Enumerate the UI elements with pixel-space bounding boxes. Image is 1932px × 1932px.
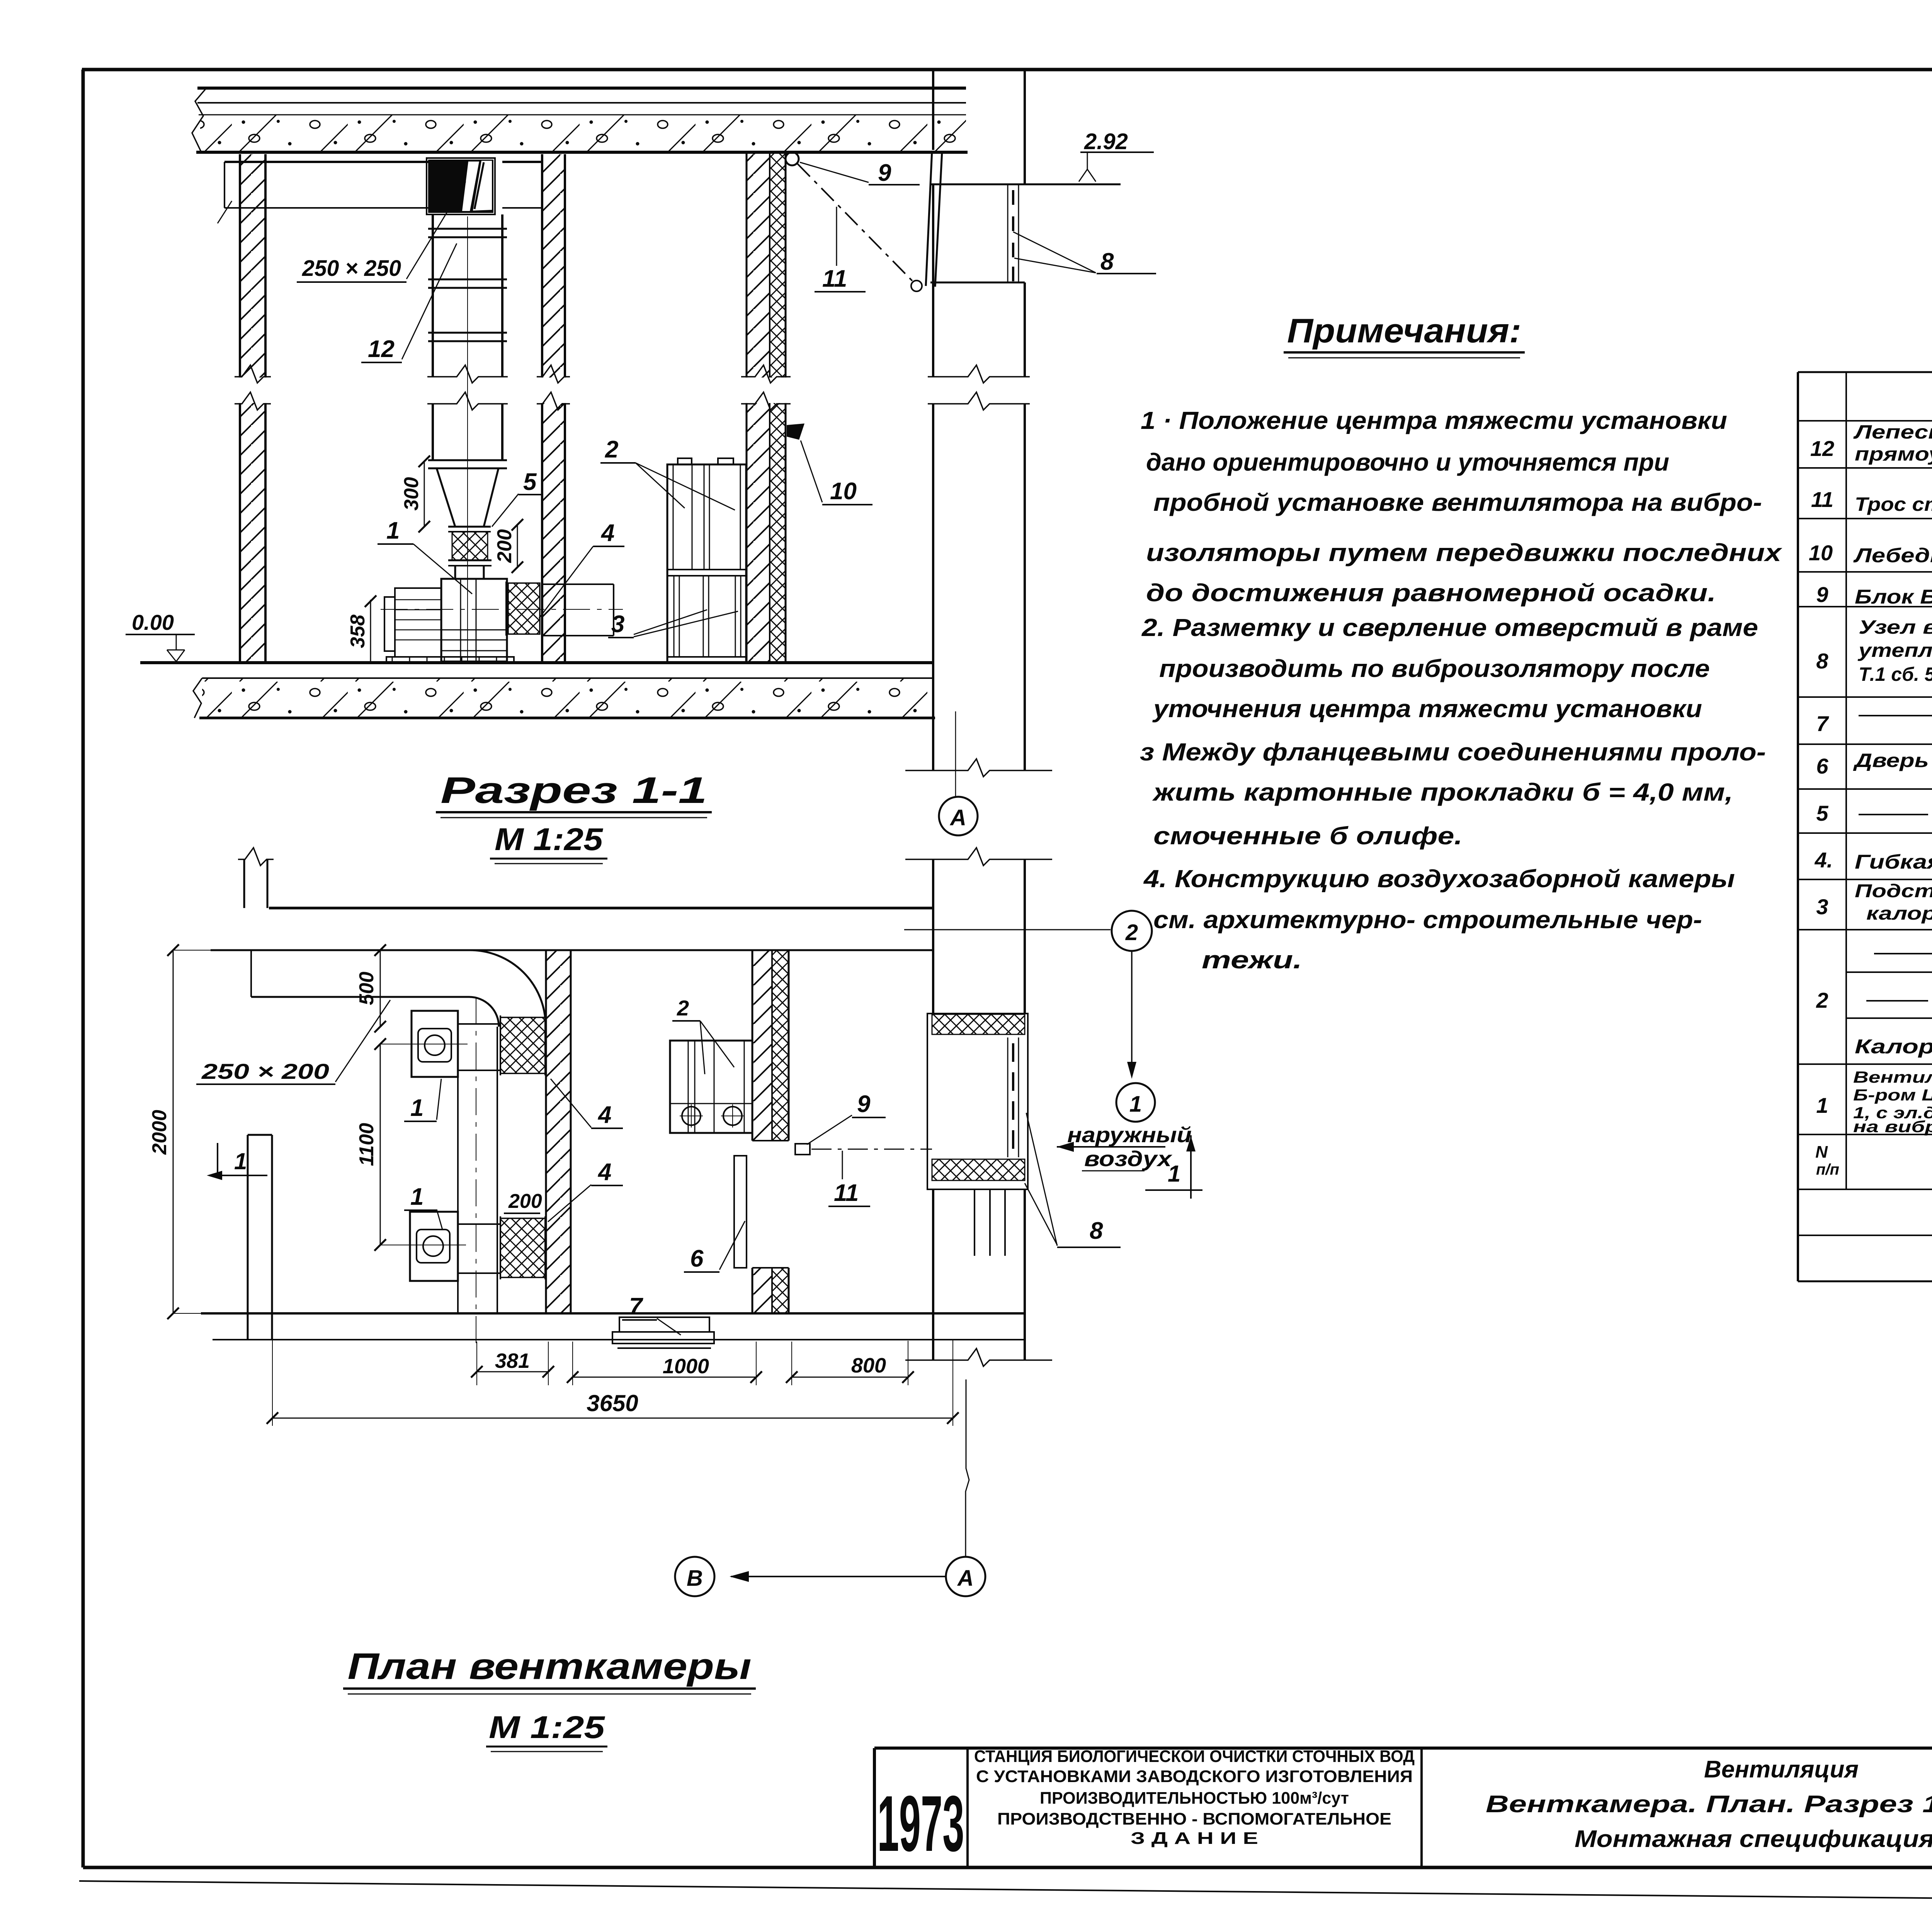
svg-text:12: 12 <box>368 336 395 362</box>
svg-text:СТАНЦИЯ БИОЛОГИЧЕСКОЙ ОЧИСТКИ: СТАНЦИЯ БИОЛОГИЧЕСКОЙ ОЧИСТКИ СТОЧНЫХ ВО… <box>974 1746 1415 1766</box>
fan axis centerline <box>381 609 623 610</box>
svg-text:2: 2 <box>1125 920 1138 945</box>
roof slab layer lines <box>197 87 966 90</box>
dim 200 <box>517 525 518 567</box>
svg-text:10: 10 <box>1809 541 1833 565</box>
sheet frame left border <box>82 70 85 1867</box>
svg-text:2: 2 <box>605 436 618 463</box>
marker circle 1 <box>1116 1083 1155 1122</box>
svg-text:С УСТАНОВКАМИ ЗАВОДСКОГО ИЗГ: С УСТАНОВКАМИ ЗАВОДСКОГО ИЗГОТОВЛЕНИЯ <box>976 1767 1413 1786</box>
ceiling channel beam <box>224 161 433 163</box>
plan: pedestal item 7 <box>619 1317 709 1332</box>
wall W2 middle column (section) <box>542 154 565 663</box>
svg-text:3650: 3650 <box>587 1390 638 1416</box>
svg-text:Т.1 сб. 5: Т.1 сб. 5 <box>1859 663 1932 685</box>
svg-text:Блок Б · 60 -П: Блок Б · 60 -П <box>1855 586 1932 608</box>
fan unit: motor cap <box>384 597 395 651</box>
flexible connection item 4 (crosshatch) <box>508 583 540 634</box>
svg-text:План венткамеры: План венткамеры <box>348 1646 752 1687</box>
svg-text:Монтажная спецификация.: Монтажная спецификация. <box>1575 1826 1932 1852</box>
wall break line below section <box>905 759 1052 777</box>
svg-text:Гибкая вставка: Гибкая вставка <box>1855 851 1932 873</box>
svg-text:калориферы: калориферы <box>1866 903 1932 924</box>
plan: entry duct 250x200 <box>211 949 933 951</box>
svg-text:4.: 4. <box>1815 848 1833 872</box>
cone transition flange <box>428 459 507 461</box>
svg-text:10: 10 <box>830 478 857 505</box>
svg-text:11: 11 <box>834 1180 859 1206</box>
duct flanges <box>428 228 507 230</box>
svg-text:Вентиляторная установка А 3,: Вентиляторная установка А 3,2 100-1 с <box>1853 1068 1932 1086</box>
dim 3650 <box>272 1313 273 1426</box>
wall W4 outer right wall (section, upper) <box>932 70 934 150</box>
svg-text:5: 5 <box>1816 801 1828 825</box>
svg-text:изоляторы путем передвижки: изоляторы путем передвижки последних <box>1146 539 1782 566</box>
svg-text:до достижения равномерной: до достижения равномерной осадки. <box>1146 579 1716 607</box>
svg-text:см. архитектурно- строительны: см. архитектурно- строительные чер- <box>1153 906 1702 934</box>
svg-text:2.92: 2.92 <box>1084 129 1128 154</box>
svg-text:N: N <box>1815 1143 1828 1162</box>
svg-text:З Д А Н И Е: З Д А Н И Е <box>1131 1829 1258 1848</box>
heater units item 2 (section) <box>667 464 746 663</box>
dim 500 <box>380 950 381 1027</box>
svg-text:2: 2 <box>677 996 689 1020</box>
svg-text:800: 800 <box>851 1354 886 1377</box>
svg-text:тежи.: тежи. <box>1202 946 1302 974</box>
svg-text:ПРОИЗВОДИТЕЛЬНОСТЬЮ 100м³/сут: ПРОИЗВОДИТЕЛЬНОСТЬЮ 100м³/сут <box>1040 1789 1349 1808</box>
svg-text:жить картонные прокладки б: жить картонные прокладки б = 4,0 мм, <box>1152 778 1733 806</box>
svg-text:5: 5 <box>523 469 537 495</box>
fan unit: electric motor <box>395 588 441 657</box>
plan: wall W2 <box>546 950 571 1313</box>
view direction arrow B-A <box>731 1576 945 1577</box>
svg-text:утепленным клапаном Установк: утепленным клапаном Установка <box>1857 639 1932 661</box>
hinged insulated flap (item 8 valve) <box>926 151 932 286</box>
svg-text:8: 8 <box>1090 1218 1103 1244</box>
plan: wall W3 upper part <box>752 950 772 1141</box>
svg-text:200: 200 <box>493 529 516 563</box>
cable hook ring <box>911 281 922 291</box>
plan: fan-to-flex connectors <box>458 1023 500 1025</box>
svg-text:2. Разметку и сверление отв: 2. Разметку и сверление отверстий в раме <box>1141 614 1758 641</box>
svg-text:М 1:25: М 1:25 <box>495 822 604 857</box>
svg-text:1: 1 <box>386 517 400 544</box>
svg-text:Трос стальной плетеный d =: Трос стальной плетеный d = 3,4 ; l = 3м <box>1855 493 1932 515</box>
svg-text:250 × 200: 250 × 200 <box>201 1059 329 1083</box>
flow arrow down <box>1131 952 1133 1075</box>
svg-text:4: 4 <box>597 1102 611 1128</box>
svg-text:4: 4 <box>600 520 614 546</box>
leader to marker 2 <box>904 929 1111 930</box>
axis marker B <box>675 1557 714 1596</box>
duct axis line <box>467 216 468 662</box>
svg-text:0.00: 0.00 <box>132 610 174 634</box>
svg-text:Разрез 1-1: Разрез 1-1 <box>440 770 707 811</box>
svg-text:1 · Положение центра тяжести: 1 · Положение центра тяжести установки <box>1141 406 1727 434</box>
wall W3 with insulation (section) <box>747 151 770 663</box>
svg-text:1: 1 <box>410 1095 423 1121</box>
plan: heater block <box>670 1041 752 1133</box>
svg-text:ПРОИЗВОДСТВЕННО - ВСПОМОГАТЕЛЬ: ПРОИЗВОДСТВЕННО - ВСПОМОГАТЕЛЬНОЕ <box>997 1810 1391 1828</box>
svg-text:Узел воздухозабора с подвес: Узел воздухозабора с подвесным <box>1859 616 1932 638</box>
plan duct axis <box>476 997 476 1349</box>
svg-text:дано ориентировочно и уточн: дано ориентировочно и уточняется при <box>1146 448 1669 476</box>
svg-text:уточнения центра тяжести: уточнения центра тяжести установки <box>1152 695 1702 723</box>
svg-text:прямоуг. сеченая 250 × 250: прямоуг. сеченая 250 × 250 тип ЛК-1 <box>1855 443 1932 465</box>
plan: bottom wall band <box>201 1312 1025 1315</box>
bottom dims 381 1000 800 <box>476 1342 477 1385</box>
sheet frame top border <box>82 68 1932 71</box>
svg-text:1: 1 <box>1816 1093 1828 1117</box>
check valve item 12 (black) <box>428 160 493 213</box>
svg-text:6: 6 <box>690 1245 704 1272</box>
duct bend <box>470 950 546 1026</box>
plan: top wall line <box>269 907 933 910</box>
svg-text:9: 9 <box>1816 582 1828 607</box>
duct stub below intake <box>974 1190 975 1256</box>
air intake opening in W4 (section) <box>930 184 1121 185</box>
svg-text:1: 1 <box>1129 1092 1142 1117</box>
sheet frame bottom border <box>83 1866 1932 1869</box>
svg-text:наружный: наружный <box>1067 1122 1192 1147</box>
svg-text:Лепестковый обратный клапа: Лепестковый обратный клапан <box>1853 421 1932 443</box>
svg-text:381: 381 <box>495 1349 530 1372</box>
flexible insert item 5 <box>452 532 488 560</box>
plan: wall W3 lower part <box>752 1268 772 1313</box>
roof slab left break edge <box>192 88 206 152</box>
fan base frame with vibro-isolators <box>386 657 514 663</box>
specification table grid <box>1798 371 1932 373</box>
svg-text:М 1:25: М 1:25 <box>489 1710 605 1745</box>
svg-text:Дверь герметическая утепленн: Дверь герметическая утепленная <box>1853 750 1932 771</box>
plan: winch item 9 <box>795 1144 810 1155</box>
heater support posts item 3 <box>673 576 675 657</box>
svg-text:7: 7 <box>1816 711 1829 736</box>
svg-text:4. Конструкцию воздухозаборн: 4. Конструкцию воздухозаборной камеры <box>1143 865 1735 893</box>
air intake unit item 8 (plan) <box>927 1014 1028 1189</box>
svg-text:Подставки под: Подставки под <box>1855 881 1932 901</box>
svg-text:12: 12 <box>1810 436 1834 461</box>
svg-text:смоченные б олифе.: смоченные б олифе. <box>1153 822 1463 850</box>
title block outline <box>874 1747 1932 1750</box>
duct stub through wall W2 <box>542 583 614 585</box>
dim 1100 <box>380 1044 381 1245</box>
sheet edge thin bottom line <box>79 1881 1932 1905</box>
svg-text:пробной установке вентилят: пробной установке вентилятора на вибро- <box>1153 488 1762 516</box>
dim 2000 <box>173 950 174 1313</box>
plan: flexible insert FC2 <box>500 1218 545 1277</box>
marker circle 2 <box>1112 911 1152 951</box>
svg-text:Вентиляция: Вентиляция <box>1704 1756 1859 1783</box>
column axis line to marker A <box>955 711 956 797</box>
svg-text:2000: 2000 <box>148 1110 171 1155</box>
axis marker A (section) <box>939 797 978 835</box>
svg-text:1: 1 <box>410 1184 423 1210</box>
svg-text:9: 9 <box>878 160 891 186</box>
wall W4 (plan area, below intake) <box>932 1190 934 1360</box>
fan unit: scroll casing <box>441 579 507 662</box>
svg-text:воздух: воздух <box>1084 1146 1173 1171</box>
wall W1 left column (section) <box>240 154 265 663</box>
svg-text:1973: 1973 <box>878 1779 964 1868</box>
svg-text:В: В <box>687 1566 703 1591</box>
svg-text:358: 358 <box>347 615 369 648</box>
svg-text:на виброизолирующем основани: на виброизолирующем основании <box>1853 1117 1932 1136</box>
dim 300 <box>424 461 425 527</box>
wall W4 (plan area, above intake) <box>932 859 934 1014</box>
svg-text:200: 200 <box>508 1190 542 1213</box>
svg-text:8: 8 <box>1100 248 1114 275</box>
svg-text:производить по виброизолятор: производить по виброизолятору после <box>1159 655 1710 682</box>
pulley block (item 9) <box>786 152 799 165</box>
svg-text:з Между фланцевыми соедин: з Между фланцевыми соединениями проло- <box>1140 738 1766 766</box>
svg-text:7: 7 <box>629 1293 643 1320</box>
svg-text:250 × 250: 250 × 250 <box>302 256 401 281</box>
svg-text:А: А <box>957 1566 974 1591</box>
svg-text:Лебедка фонарная: Лебедка фонарная <box>1853 544 1932 567</box>
svg-text:300: 300 <box>400 477 423 511</box>
dim 358 <box>370 600 371 662</box>
svg-text:Калорифер КФ6 -3: Калорифер КФ6 -3 <box>1855 1036 1932 1058</box>
svg-text:Б-ром Ц4-70 N 3,2 с кол. Д: Б-ром Ц4-70 N 3,2 с кол. Д ном исполнени… <box>1853 1086 1932 1104</box>
svg-text:2: 2 <box>1816 988 1828 1012</box>
svg-text:1: 1 <box>1168 1161 1180 1187</box>
svg-text:11: 11 <box>1811 487 1833 512</box>
axis marker A (plan) <box>946 1557 985 1596</box>
svg-text:1100: 1100 <box>355 1123 378 1166</box>
svg-text:3: 3 <box>1816 895 1828 919</box>
svg-text:3: 3 <box>611 611 624 638</box>
floor slab (section) <box>140 661 933 664</box>
plan: top-left wall stub <box>243 859 245 908</box>
svg-text:8: 8 <box>1816 649 1828 673</box>
plan: vertical duct lines <box>457 1077 459 1212</box>
svg-text:4: 4 <box>597 1159 611 1185</box>
svg-text:9: 9 <box>857 1091 871 1117</box>
vertical duct 250x250 (section) <box>432 214 434 377</box>
anchor hook on wall W3 <box>787 423 804 440</box>
wall W4 below floor <box>932 663 934 770</box>
cone transition <box>437 468 455 527</box>
plan: left wall stub <box>247 1135 249 1340</box>
axis line to marker A (bottom) <box>966 1379 969 1556</box>
plan: fan 1 <box>412 1011 458 1077</box>
svg-text:500: 500 <box>355 972 378 1005</box>
plan: fan 2 <box>410 1212 458 1281</box>
svg-text:А: А <box>949 805 966 830</box>
louvre panel (section) <box>1007 184 1009 282</box>
svg-text:11: 11 <box>822 265 847 292</box>
cable to flap (item 11) <box>798 164 915 284</box>
svg-text:1: 1 <box>234 1148 247 1174</box>
plan: door leaf item 6 <box>734 1156 747 1268</box>
roof slab concrete band <box>200 115 966 151</box>
svg-text:Венткамера. План. Разрез: Венткамера. План. Разрез 1-1 <box>1486 1791 1932 1818</box>
svg-text:6: 6 <box>1816 754 1828 778</box>
svg-text:п/п: п/п <box>1816 1161 1839 1178</box>
svg-text:1000: 1000 <box>663 1355 709 1378</box>
plan: flexible insert FC1 <box>500 1017 545 1073</box>
svg-text:Примечания:: Примечания: <box>1287 311 1521 350</box>
